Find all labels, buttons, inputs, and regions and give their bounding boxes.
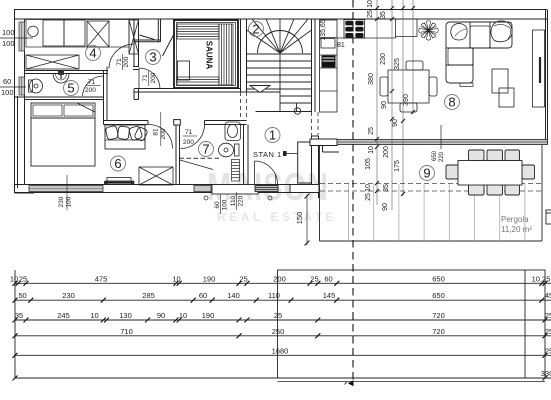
winder fan — [247, 30, 281, 53]
sauna door diagonal — [163, 34, 175, 56]
svg-text:10,25: 10,25 — [532, 274, 551, 283]
niche door diagonal — [140, 35, 155, 40]
svg-text:100: 100 — [66, 196, 73, 207]
150 dim — [295, 194, 310, 246]
svg-text:25: 25 — [19, 274, 27, 283]
svg-text:200: 200 — [85, 87, 96, 94]
svg-text:330: 330 — [541, 369, 551, 378]
svg-text:2: 2 — [252, 22, 259, 37]
room7 sink — [225, 122, 241, 141]
svg-text:230: 230 — [58, 196, 65, 207]
svg-text:10: 10 — [367, 0, 374, 8]
svg-text:130: 130 — [119, 311, 132, 320]
wall room3 west — [133, 19, 135, 67]
dim line5 labels — [272, 346, 551, 355]
hob — [344, 20, 365, 39]
bottom window dims rotated — [58, 175, 272, 214]
chain tick marks — [375, 6, 415, 196]
svg-text:25: 25 — [367, 10, 374, 18]
svg-text:25: 25 — [274, 311, 282, 320]
svg-text:220: 220 — [238, 195, 245, 206]
svg-text:25: 25 — [310, 274, 318, 283]
svg-text:71: 71 — [116, 58, 123, 66]
svg-text:60: 60 — [3, 77, 11, 86]
svg-text:50: 50 — [18, 291, 26, 300]
svg-text:25: 25 — [365, 193, 372, 201]
pillow right — [491, 21, 512, 42]
svg-text:5: 5 — [67, 81, 74, 96]
svg-text:10: 10 — [368, 146, 375, 154]
left outside dims — [0, 28, 33, 97]
sauna box — [174, 20, 238, 88]
door labels — [85, 79, 197, 146]
svg-text:25: 25 — [545, 327, 551, 336]
svg-text:SAUNA: SAUNA — [205, 41, 214, 70]
room7 shower dashed — [180, 157, 222, 159]
dim line3 labels — [15, 311, 551, 320]
svg-text:200: 200 — [383, 146, 390, 158]
tv stand — [533, 30, 545, 107]
window W2 left 60/100 — [19, 77, 25, 95]
kitchen 135,65 + 81 — [320, 19, 345, 49]
wall left outer — [14, 10, 16, 194]
wall room5 east — [103, 71, 105, 125]
svg-text:190: 190 — [202, 311, 215, 320]
wall bottom band of rooms 6,7,1 — [15, 185, 320, 194]
svg-text:90: 90 — [392, 119, 399, 127]
svg-text:REAL ESTATE: REAL ESTATE — [217, 210, 337, 224]
wall stairs east — [311, 19, 313, 112]
dim line4 ticks — [13, 333, 548, 338]
svg-text:25: 25 — [545, 346, 551, 355]
dim area box — [15, 270, 545, 378]
treads left — [247, 53, 281, 55]
wall room5 south — [15, 96, 104, 98]
right vertical dim chains — [377, 0, 413, 210]
wall sauna row south — [134, 88, 240, 90]
svg-text:230: 230 — [62, 291, 75, 300]
sauna bench bottom — [177, 77, 219, 85]
section dashed line — [352, 0, 354, 383]
svg-text:81: 81 — [153, 128, 160, 136]
terrace decking lines — [349, 184, 525, 241]
svg-text:325: 325 — [394, 58, 401, 70]
coffee tables — [492, 69, 514, 107]
svg-text:230: 230 — [380, 53, 387, 65]
sauna bench top (h stripes) — [177, 24, 219, 39]
svg-text:45: 45 — [545, 291, 551, 300]
svg-text:6: 6 — [114, 156, 121, 171]
door D1 entry arc — [255, 161, 278, 184]
entry threshold — [212, 185, 258, 195]
svg-text:145: 145 — [323, 291, 336, 300]
svg-text:90: 90 — [381, 101, 388, 109]
svg-text:190: 190 — [203, 274, 216, 283]
svg-text:100: 100 — [2, 28, 15, 37]
svg-text:1: 1 — [269, 128, 276, 143]
svg-text:650: 650 — [432, 150, 438, 161]
treads right — [280, 53, 312, 55]
closet room1 — [298, 142, 312, 183]
long wardrobe X room4 — [26, 55, 79, 69]
room6 radiator — [104, 178, 134, 185]
kitchen top counter — [337, 19, 417, 38]
svg-text:25: 25 — [545, 311, 551, 320]
svg-text:90: 90 — [157, 311, 165, 320]
svg-text:35: 35 — [380, 11, 387, 19]
living sofa L — [446, 21, 512, 87]
wall room6/7 divider — [175, 125, 177, 185]
svg-text:25: 25 — [239, 274, 247, 283]
wall room6 north band — [104, 120, 149, 122]
pillow left — [451, 23, 467, 40]
wall top outer — [14, 9, 547, 11]
rotated door labels — [116, 54, 167, 146]
room6 wardrobe X — [139, 167, 173, 185]
window W3 room6 230/100 — [29, 186, 103, 192]
svg-text:150: 150 — [295, 212, 304, 225]
svg-text:200: 200 — [273, 274, 286, 283]
svg-text:11,20 m²: 11,20 m² — [501, 225, 532, 234]
room number circles — [64, 22, 460, 181]
wall right outer — [545, 10, 547, 145]
svg-text:105: 105 — [365, 158, 372, 170]
svg-text:7: 7 — [202, 142, 209, 157]
section arrow — [348, 380, 354, 386]
door D5 arc room5 — [83, 76, 104, 96]
svg-text:71: 71 — [88, 79, 96, 86]
svg-text:720: 720 — [432, 327, 445, 336]
door D6 arc room6 — [149, 125, 173, 149]
pergola door tick — [440, 125, 442, 149]
wall room7 north — [205, 120, 247, 122]
svg-text:245: 245 — [57, 311, 70, 320]
svg-text:250: 250 — [272, 327, 285, 336]
svg-text:Pergola: Pergola — [501, 215, 529, 224]
room5 sink — [53, 71, 69, 83]
svg-text:4: 4 — [89, 46, 96, 61]
niche bottom wall — [134, 39, 161, 41]
svg-text:60: 60 — [199, 291, 207, 300]
rotated chain labels — [365, 0, 445, 211]
svg-text:110: 110 — [268, 291, 280, 300]
room6 bed — [31, 103, 95, 166]
svg-text:720: 720 — [432, 311, 445, 320]
room7 toilet — [219, 143, 240, 157]
svg-text:60: 60 — [324, 274, 332, 283]
dim line6 ticks — [13, 376, 548, 381]
step below band — [322, 146, 324, 153]
svg-text:380: 380 — [368, 73, 375, 85]
window W1 left 100/100 — [19, 22, 25, 51]
svg-text:650: 650 — [432, 274, 445, 283]
wall room1 east — [311, 136, 313, 193]
dimension lines bottom — [15, 283, 551, 381]
room4 furniture: counter, seats, sink circle — [26, 20, 139, 70]
svg-text:175: 175 — [394, 160, 401, 172]
svg-text:10: 10 — [365, 184, 372, 192]
svg-text:100: 100 — [2, 39, 15, 48]
wardrobe X top — [87, 21, 109, 47]
dim line3 ticks — [13, 318, 548, 323]
terrace outline — [320, 145, 543, 242]
wall stairs west — [240, 19, 242, 92]
svg-text:285: 285 — [142, 291, 155, 300]
down arrow — [250, 86, 270, 93]
kitchen oven dark — [322, 56, 336, 68]
svg-text:35: 35 — [15, 311, 23, 320]
room5 toilet — [29, 79, 43, 93]
dim line2 labels — [18, 291, 551, 300]
newel circle — [294, 108, 300, 114]
svg-text:35: 35 — [383, 184, 390, 192]
svg-text:71: 71 — [142, 74, 149, 82]
room6 sofa — [105, 125, 148, 149]
svg-text:475: 475 — [95, 274, 108, 283]
dim line5 ticks — [13, 353, 548, 358]
svg-text:200: 200 — [183, 139, 194, 146]
dim line1 ticks — [13, 281, 548, 286]
svg-text:10: 10 — [179, 311, 187, 320]
dim line2 ticks — [13, 298, 545, 303]
svg-text:60: 60 — [214, 201, 221, 209]
svg-text:140: 140 — [227, 291, 240, 300]
wall kitchen/terrace white segment — [290, 185, 319, 193]
dining table terrace — [446, 150, 535, 195]
svg-text:200: 200 — [123, 56, 130, 67]
svg-text:710: 710 — [120, 327, 133, 336]
door D3 arc room3 — [139, 68, 160, 89]
svg-text:8: 8 — [448, 95, 455, 110]
svg-text:10: 10 — [90, 311, 98, 320]
svg-text:9: 9 — [423, 166, 430, 181]
room7 shaft hatched — [232, 160, 240, 182]
wall stub right edge — [546, 210, 551, 224]
svg-text:71: 71 — [185, 129, 193, 136]
wall stub between doors — [174, 120, 181, 125]
niche right wall — [157, 19, 159, 42]
svg-text:100: 100 — [222, 199, 229, 210]
sliding window band terrace top — [337, 140, 548, 145]
dim line4 labels — [120, 327, 551, 336]
svg-text:1680: 1680 — [272, 346, 289, 355]
terrace dashed lines — [320, 184, 542, 192]
wall room7 east / room1 west — [243, 125, 245, 185]
door D4 arc room4 — [109, 44, 134, 69]
svg-text:90: 90 — [382, 203, 389, 211]
svg-text:3: 3 — [149, 50, 156, 65]
interior walls — [15, 19, 340, 198]
door D7 arc room7 — [181, 125, 205, 149]
svg-text:10: 10 — [172, 274, 180, 283]
kitchen counter column — [320, 20, 338, 112]
dashed understair lines — [241, 92, 319, 136]
kitchen table — [380, 61, 437, 112]
svg-text:390: 390 — [403, 94, 410, 106]
svg-text:81: 81 — [337, 42, 345, 49]
sauna heater — [178, 61, 190, 80]
tall wardrobe X — [129, 20, 139, 54]
svg-text:135,65: 135,65 — [320, 19, 327, 41]
dim line1 labels — [10, 274, 551, 283]
wall room4 south — [25, 70, 109, 72]
svg-text:25: 25 — [368, 127, 375, 135]
svg-text:STAN 1: STAN 1 — [253, 150, 282, 159]
winder arc — [258, 31, 303, 54]
svg-text:200: 200 — [150, 72, 157, 83]
stairs — [247, 19, 312, 114]
svg-text:100: 100 — [1, 88, 14, 97]
window W4 room7 60/100 — [194, 186, 211, 192]
svg-text:10: 10 — [10, 274, 18, 283]
plant star — [419, 21, 439, 41]
svg-text:650: 650 — [432, 291, 445, 300]
svg-text:110: 110 — [230, 195, 237, 206]
sauna bench right (v stripes) — [219, 24, 233, 85]
svg-text:220: 220 — [439, 151, 445, 162]
